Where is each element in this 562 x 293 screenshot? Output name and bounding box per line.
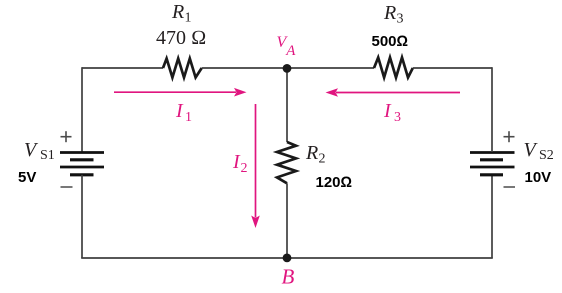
svg-text:120Ω: 120Ω bbox=[316, 174, 353, 191]
wire R2 to node B bbox=[286, 183, 288, 258]
wire left vertical upper bbox=[81, 67, 83, 152]
wire right vertical lower bbox=[491, 175, 493, 258]
svg-text:1: 1 bbox=[185, 110, 192, 125]
svg-text:10V: 10V bbox=[525, 169, 552, 186]
svg-text:V: V bbox=[24, 139, 39, 161]
voltage source VS2 battery bbox=[470, 153, 515, 175]
svg-text:I: I bbox=[383, 100, 392, 122]
svg-text:3: 3 bbox=[397, 12, 404, 27]
svg-text:1: 1 bbox=[185, 11, 192, 26]
node A junction dot bbox=[283, 64, 292, 73]
plus sign VS2 bbox=[504, 131, 515, 142]
svg-text:500Ω: 500Ω bbox=[372, 33, 409, 50]
svg-text:R: R bbox=[305, 142, 318, 164]
current arrow I1 bbox=[114, 88, 247, 97]
svg-text:5V: 5V bbox=[18, 169, 36, 186]
svg-text:A: A bbox=[285, 43, 296, 59]
wire R1 to node A bbox=[202, 67, 287, 69]
wire node A to R2 bbox=[286, 68, 288, 142]
current arrow I2 bbox=[251, 104, 260, 228]
svg-text:2: 2 bbox=[241, 161, 248, 176]
wire top-left segment bbox=[82, 67, 163, 69]
svg-text:R: R bbox=[383, 2, 396, 24]
svg-text:2: 2 bbox=[319, 151, 326, 166]
svg-text:S2: S2 bbox=[539, 148, 554, 163]
svg-text:I: I bbox=[175, 100, 184, 122]
resistor R3 bbox=[374, 58, 413, 78]
svg-text:B: B bbox=[282, 265, 295, 289]
resistor R1 bbox=[163, 59, 202, 78]
resistor R2 bbox=[277, 142, 296, 183]
current arrow I3 bbox=[326, 88, 461, 97]
wire R3 to top-right corner bbox=[413, 67, 492, 69]
wire bottom bbox=[81, 257, 493, 259]
svg-text:V: V bbox=[524, 139, 539, 161]
wire left vertical lower bbox=[81, 175, 83, 258]
node B junction dot bbox=[283, 254, 292, 263]
plus sign VS1 bbox=[61, 131, 72, 142]
voltage source VS1 battery bbox=[60, 153, 104, 175]
wire node A to R3 bbox=[287, 67, 374, 69]
minus sign VS1 bbox=[61, 186, 73, 188]
minus sign VS2 bbox=[504, 186, 516, 188]
svg-text:R: R bbox=[171, 1, 184, 23]
svg-text:3: 3 bbox=[394, 110, 401, 125]
wire right vertical upper bbox=[491, 67, 493, 152]
svg-text:S1: S1 bbox=[40, 148, 55, 163]
svg-text:470 Ω: 470 Ω bbox=[156, 27, 206, 49]
